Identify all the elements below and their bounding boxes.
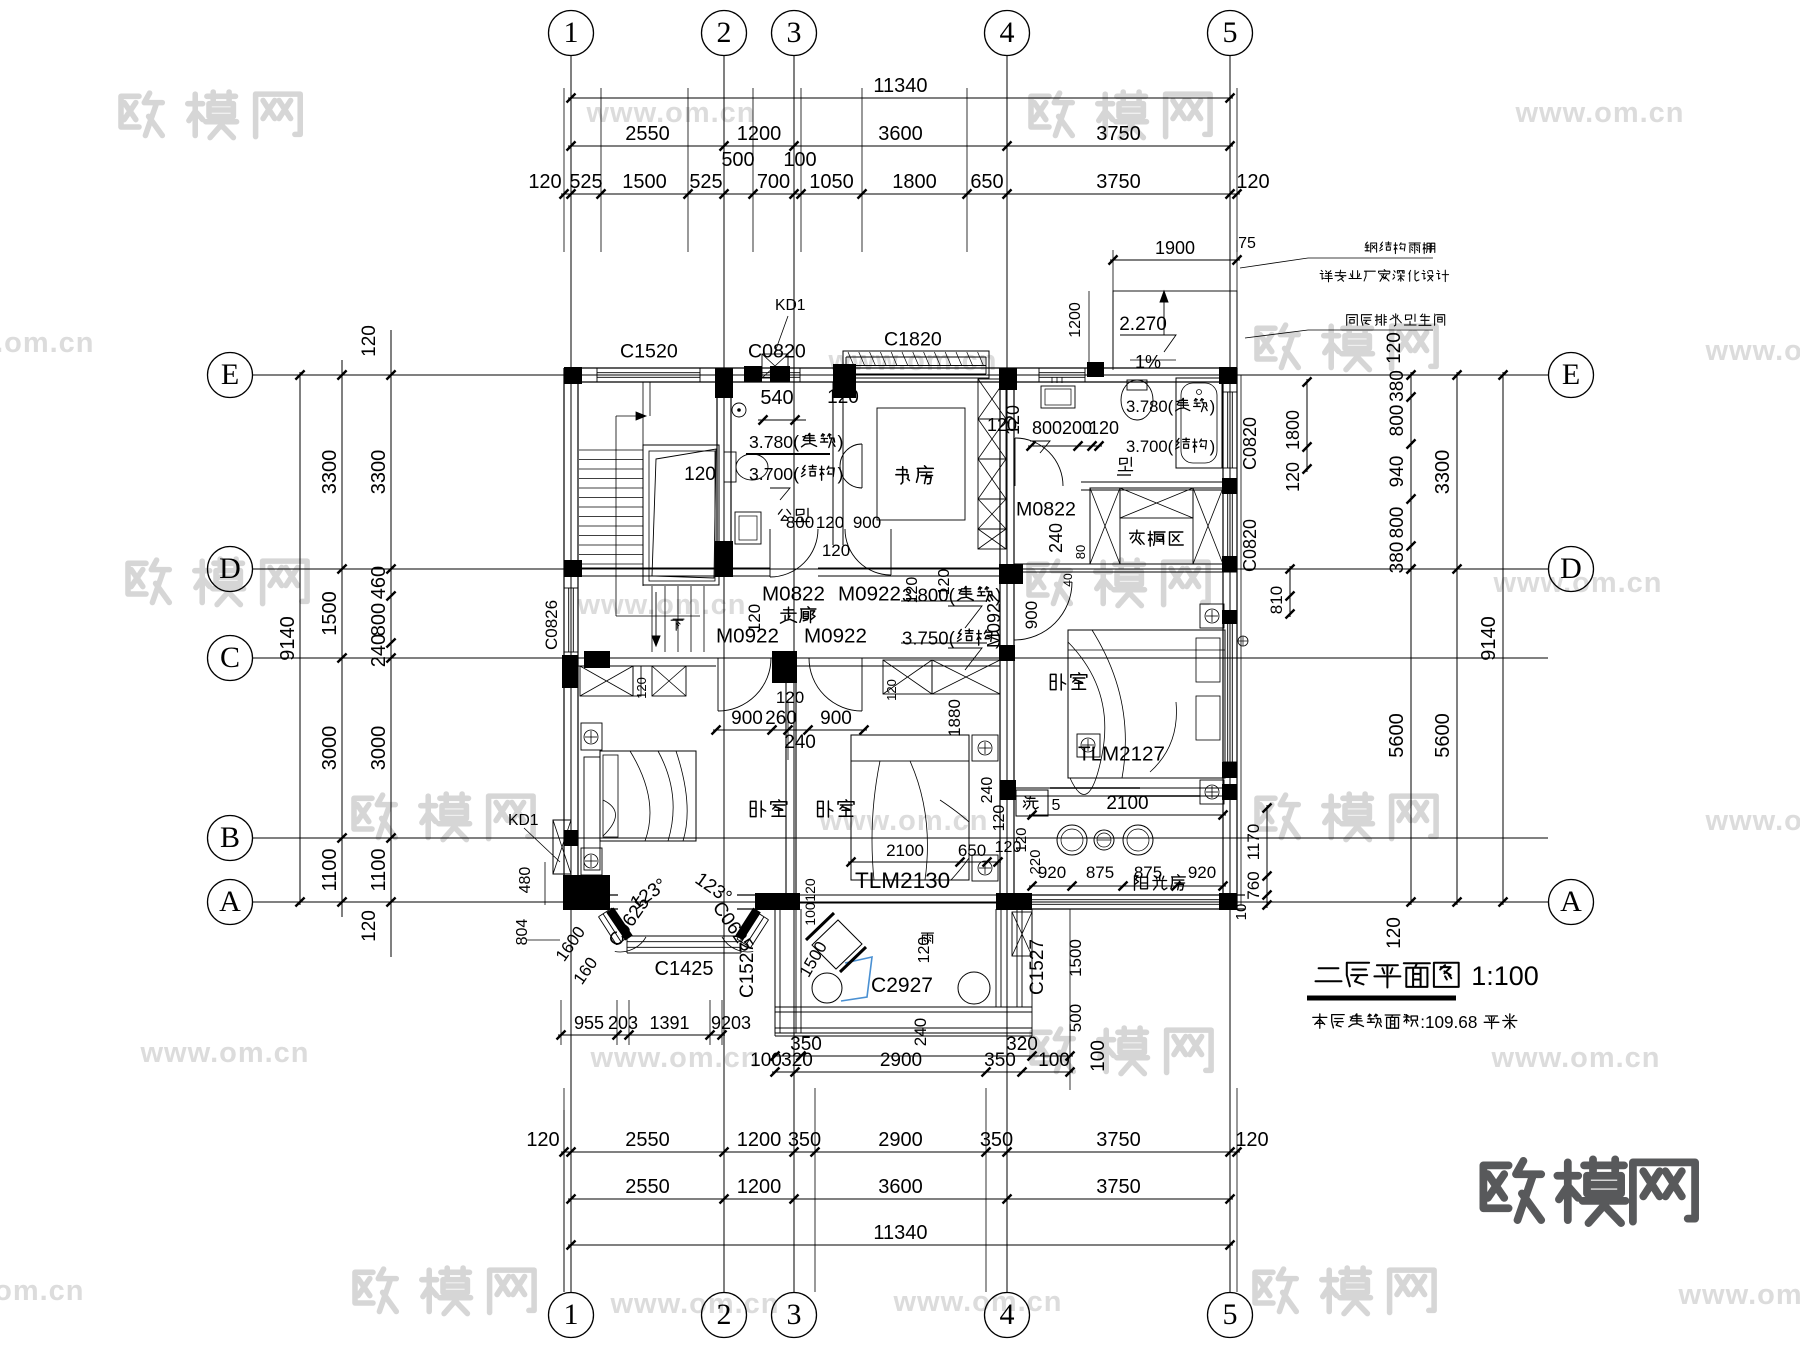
svg-text:1800: 1800: [1283, 410, 1303, 450]
svg-text:120: 120: [1235, 1129, 1268, 1151]
svg-text:1200: 1200: [737, 1129, 782, 1151]
svg-text:3300: 3300: [368, 450, 390, 495]
svg-text:525: 525: [569, 171, 602, 193]
svg-text:2550: 2550: [625, 1129, 670, 1151]
svg-text:E: E: [1562, 358, 1580, 391]
svg-text:120: 120: [1236, 171, 1269, 193]
svg-text:3000: 3000: [319, 726, 341, 771]
svg-text:KD1: KD1: [508, 812, 539, 829]
svg-text:1880: 1880: [945, 699, 964, 737]
svg-text:240: 240: [911, 1018, 930, 1046]
svg-text:3.750(: 3.750(: [902, 628, 956, 649]
svg-text:240: 240: [368, 634, 390, 667]
svg-text:955: 955: [574, 1013, 604, 1033]
svg-text:9: 9: [711, 1013, 721, 1033]
svg-text:3750: 3750: [1096, 123, 1141, 145]
svg-text:M0822: M0822: [1016, 499, 1076, 521]
svg-text:3300: 3300: [1432, 450, 1454, 495]
svg-text:C2927: C2927: [871, 974, 933, 997]
svg-text:C: C: [220, 641, 240, 674]
svg-text:540: 540: [760, 387, 793, 409]
svg-text:120: 120: [816, 513, 844, 532]
svg-text:www.om.cn: www.om.cn: [0, 1275, 85, 1307]
svg-text:3750: 3750: [1096, 1129, 1141, 1151]
svg-text:TLM2127: TLM2127: [1078, 743, 1165, 766]
svg-text::109.68: :109.68: [1420, 1012, 1477, 1032]
svg-text:C0820: C0820: [748, 341, 806, 363]
svg-text:100: 100: [783, 149, 816, 171]
svg-text:2550: 2550: [625, 123, 670, 145]
svg-text:M0922: M0922: [838, 583, 901, 606]
svg-text:1170: 1170: [1244, 824, 1263, 861]
svg-text:C1425: C1425: [655, 958, 714, 980]
svg-text:C1527: C1527: [1027, 939, 1048, 995]
svg-text:760: 760: [1244, 871, 1263, 899]
svg-text:1: 1: [564, 1298, 579, 1331]
svg-text:120: 120: [1384, 917, 1405, 949]
svg-text:3000: 3000: [368, 726, 390, 771]
svg-text:940: 940: [1387, 456, 1408, 488]
svg-text:www.om.cn: www.om.cn: [1704, 335, 1800, 367]
svg-text:): ): [1210, 397, 1216, 416]
svg-text:120: 120: [1384, 332, 1405, 364]
svg-text:120: 120: [359, 910, 380, 942]
svg-text:500: 500: [721, 149, 754, 171]
svg-text:1200: 1200: [737, 123, 782, 145]
svg-text:920: 920: [1188, 863, 1216, 882]
svg-text:5: 5: [1052, 797, 1061, 814]
svg-text:120: 120: [827, 387, 859, 408]
svg-text:120: 120: [684, 464, 716, 485]
svg-text:M0922: M0922: [984, 593, 1004, 648]
svg-text:804: 804: [514, 919, 531, 946]
svg-text:2: 2: [717, 1298, 732, 1331]
svg-text:www.om.cn: www.om.cn: [585, 97, 755, 129]
svg-text:3750: 3750: [1096, 1176, 1141, 1198]
svg-text:2: 2: [717, 16, 732, 49]
svg-text:4: 4: [1000, 16, 1015, 49]
svg-text:5600: 5600: [1386, 713, 1408, 758]
svg-text:2900: 2900: [878, 1129, 923, 1151]
svg-text:900: 900: [1022, 601, 1041, 629]
svg-text:380: 380: [1387, 542, 1408, 574]
svg-text:120: 120: [802, 878, 818, 902]
svg-text:120: 120: [884, 679, 899, 701]
svg-text:350: 350: [984, 1050, 1016, 1071]
svg-text:900: 900: [820, 708, 852, 729]
svg-text:www.om.cn: www.om.cn: [0, 327, 95, 359]
svg-text:240: 240: [1046, 523, 1066, 553]
svg-text:800: 800: [786, 513, 814, 532]
svg-text:200: 200: [1062, 418, 1092, 438]
svg-text:C1820: C1820: [884, 329, 942, 351]
svg-text:5: 5: [1223, 1298, 1238, 1331]
svg-text:100: 100: [1038, 1050, 1070, 1071]
svg-text:3750: 3750: [1096, 171, 1141, 193]
svg-text:3300: 3300: [319, 450, 341, 495]
svg-text:M0922: M0922: [804, 625, 867, 648]
svg-text:40: 40: [1061, 573, 1075, 587]
svg-text:120: 120: [776, 688, 804, 707]
svg-text:1:100: 1:100: [1471, 961, 1539, 991]
svg-text:350: 350: [788, 1129, 821, 1151]
svg-text:2900: 2900: [880, 1050, 922, 1071]
svg-text:C0820: C0820: [1240, 417, 1260, 470]
svg-text:120: 120: [936, 569, 953, 596]
svg-text:C1527: C1527: [737, 942, 758, 998]
svg-text:3.700(: 3.700(: [749, 464, 799, 484]
svg-text:9140: 9140: [1478, 616, 1500, 661]
svg-text:240: 240: [979, 777, 996, 804]
svg-text:www.om.cn: www.om.cn: [1677, 1279, 1800, 1311]
svg-text:): ): [1210, 437, 1216, 456]
svg-text:TLM2130: TLM2130: [855, 868, 950, 893]
svg-text:460: 460: [368, 566, 390, 599]
svg-text:800: 800: [1387, 405, 1408, 437]
svg-text:5600: 5600: [1432, 713, 1454, 758]
svg-text:120: 120: [359, 325, 380, 357]
svg-text:800: 800: [1032, 418, 1062, 438]
svg-text:100: 100: [750, 1050, 782, 1071]
svg-text:D: D: [1560, 552, 1582, 585]
svg-text:3: 3: [787, 1298, 802, 1331]
svg-text:120: 120: [528, 171, 561, 193]
svg-text:www.om.cn: www.om.cn: [1490, 1042, 1660, 1074]
svg-text:1200: 1200: [737, 1176, 782, 1198]
svg-text:C0820: C0820: [1240, 519, 1260, 572]
svg-text:C0826: C0826: [542, 600, 561, 650]
svg-text:650: 650: [970, 171, 1003, 193]
svg-text:KD1: KD1: [775, 297, 806, 314]
svg-text:1050: 1050: [809, 171, 854, 193]
svg-text:525: 525: [689, 171, 722, 193]
svg-text:320: 320: [781, 1050, 813, 1071]
svg-text:650: 650: [958, 841, 986, 860]
svg-text:1%: 1%: [1135, 352, 1161, 372]
svg-text:800: 800: [368, 603, 390, 636]
svg-text:875: 875: [1086, 863, 1114, 882]
svg-text:900: 900: [731, 708, 763, 729]
svg-text:120: 120: [1089, 418, 1119, 438]
svg-text:203: 203: [608, 1013, 638, 1033]
svg-text:80: 80: [1073, 545, 1088, 559]
svg-text:120: 120: [745, 604, 764, 632]
svg-text:120: 120: [1283, 462, 1303, 492]
svg-text:3.780(: 3.780(: [1126, 397, 1174, 416]
svg-text:3: 3: [787, 16, 802, 49]
svg-text:2100: 2100: [886, 841, 924, 860]
svg-text:5: 5: [1223, 16, 1238, 49]
svg-text:4: 4: [1000, 1298, 1015, 1331]
svg-text:1100: 1100: [319, 848, 341, 891]
svg-text:C1520: C1520: [620, 341, 678, 363]
svg-text:240: 240: [784, 732, 816, 753]
svg-text:500: 500: [1066, 1004, 1085, 1032]
svg-text:3.700(: 3.700(: [1126, 437, 1174, 456]
svg-text:www.om.cn: www.om.cn: [1704, 805, 1800, 837]
svg-text:www.om.cn: www.om.cn: [609, 1288, 779, 1320]
svg-text:11340: 11340: [873, 75, 927, 97]
svg-text:120: 120: [526, 1129, 559, 1151]
svg-text:www.om.cn: www.om.cn: [589, 1042, 759, 1074]
svg-text:2.270: 2.270: [1119, 314, 1167, 335]
svg-text:75: 75: [1238, 235, 1256, 252]
svg-text:120: 120: [995, 839, 1022, 856]
svg-text:2550: 2550: [625, 1176, 670, 1198]
svg-text:1800: 1800: [892, 171, 937, 193]
svg-text:E: E: [221, 358, 239, 391]
svg-text:1900: 1900: [1155, 238, 1195, 258]
svg-text:A: A: [1560, 885, 1582, 918]
svg-text:1391: 1391: [649, 1013, 689, 1033]
svg-text:www.om.cn: www.om.cn: [1514, 97, 1684, 129]
svg-text:B: B: [220, 821, 240, 854]
svg-text:1200: 1200: [1067, 302, 1084, 338]
svg-text:3.780(: 3.780(: [749, 432, 799, 452]
svg-text:1: 1: [564, 16, 579, 49]
svg-text:1500: 1500: [319, 591, 341, 636]
svg-text:M0822: M0822: [762, 583, 825, 606]
svg-text:1100: 1100: [368, 848, 390, 891]
svg-text:100: 100: [1088, 1040, 1109, 1072]
svg-text:1500: 1500: [622, 171, 667, 193]
svg-text:): ): [838, 432, 844, 452]
svg-text:1500: 1500: [1066, 939, 1085, 977]
svg-text:120: 120: [904, 577, 921, 604]
svg-text:100: 100: [802, 902, 818, 926]
svg-text:120: 120: [991, 805, 1008, 832]
svg-text:480: 480: [517, 867, 534, 894]
svg-text:203: 203: [721, 1013, 751, 1033]
svg-text:3600: 3600: [878, 123, 923, 145]
svg-text:800: 800: [1387, 507, 1408, 539]
svg-text:www.om.cn: www.om.cn: [139, 1037, 309, 1069]
svg-text:9140: 9140: [277, 616, 299, 661]
svg-text:www.om.cn: www.om.cn: [892, 1286, 1062, 1318]
svg-text:3600: 3600: [878, 1176, 923, 1198]
svg-text:D: D: [219, 552, 241, 585]
svg-text:810: 810: [1267, 586, 1286, 614]
svg-text:120: 120: [987, 415, 1017, 435]
svg-text:700: 700: [757, 171, 790, 193]
svg-text:120: 120: [634, 677, 649, 699]
svg-text:11340: 11340: [873, 1222, 927, 1244]
svg-text:A: A: [219, 885, 241, 918]
svg-text:120: 120: [822, 541, 850, 560]
svg-text:350: 350: [980, 1129, 1013, 1151]
